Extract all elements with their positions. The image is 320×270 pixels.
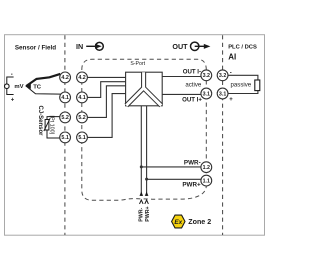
thermocouple TC lower leg (thin) bbox=[26, 86, 61, 94]
Pt100 RTD resistor bbox=[44, 117, 60, 138]
svg-text:3.1: 3.1 bbox=[219, 91, 226, 97]
svg-text:3.2: 3.2 bbox=[219, 73, 226, 79]
isolator box U1 bbox=[126, 72, 163, 106]
svg-text:PLC / DCS: PLC / DCS bbox=[228, 44, 257, 50]
arrowhead PWR+ supply bbox=[145, 192, 149, 196]
junction dot PWR+ bbox=[145, 178, 148, 181]
IN port symbol bbox=[86, 42, 103, 50]
terminal 3.2 PLC bbox=[217, 70, 228, 81]
svg-text:PWR-: PWR- bbox=[138, 207, 144, 221]
svg-text:5.1: 5.1 bbox=[78, 135, 85, 141]
svg-text:+: + bbox=[11, 97, 15, 103]
svg-text:5.2: 5.2 bbox=[61, 115, 68, 121]
svg-text:S-Port: S-Port bbox=[130, 61, 145, 67]
wire terminal 4.1 to isolator bbox=[88, 82, 126, 98]
terminal 3.2 device bbox=[201, 70, 212, 81]
svg-text:PWR+: PWR+ bbox=[145, 206, 151, 221]
svg-text:[Pt 100]: [Pt 100] bbox=[49, 116, 55, 135]
terminal 5.1 plug bbox=[60, 132, 71, 143]
svg-text:4.2: 4.2 bbox=[61, 75, 68, 81]
svg-text:Ex: Ex bbox=[174, 219, 182, 226]
terminal 5.2 device bbox=[77, 112, 88, 123]
terminal 4.2 plug bbox=[60, 72, 71, 83]
S-Port dashed device outline bbox=[82, 59, 207, 200]
Ex hexagon symbol bbox=[172, 215, 185, 228]
terminal 4.1 device bbox=[77, 92, 88, 103]
load resistor bbox=[255, 80, 260, 91]
svg-text:4.1: 4.1 bbox=[78, 95, 85, 101]
svg-text:CJ-Sensor: CJ-Sensor bbox=[37, 106, 43, 137]
svg-text:4.2: 4.2 bbox=[78, 75, 85, 81]
svg-text:-: - bbox=[230, 70, 232, 76]
border frame bbox=[5, 35, 265, 236]
svg-text:3.1: 3.1 bbox=[203, 91, 210, 97]
svg-text:Sensor / Field: Sensor / Field bbox=[15, 44, 56, 51]
terminal 3.1 PLC bbox=[217, 88, 228, 99]
svg-text:3.2: 3.2 bbox=[203, 73, 210, 79]
svg-text:Zone 2: Zone 2 bbox=[188, 218, 211, 226]
wire junction to terminal 1.1 bbox=[147, 178, 202, 180]
svg-text:active: active bbox=[185, 81, 202, 88]
wire terminal 5.2 to isolator bbox=[88, 86, 126, 118]
wire PWR- down from isolator bbox=[140, 106, 142, 196]
terminal 5.2 plug bbox=[60, 112, 71, 123]
svg-text:OUT I-: OUT I- bbox=[183, 69, 201, 76]
svg-text:mV: mV bbox=[14, 84, 23, 90]
svg-text:TC: TC bbox=[33, 84, 42, 90]
plug chevron PWR- bbox=[140, 200, 144, 204]
passive load circuit wires bbox=[228, 75, 258, 93]
wire terminal 5.1 to isolator bbox=[88, 94, 126, 138]
svg-text:PWR-: PWR- bbox=[184, 159, 201, 166]
terminal 1.1 device bbox=[201, 175, 212, 186]
terminal 4.1 plug bbox=[60, 92, 71, 103]
terminal 4.2 device bbox=[77, 72, 88, 83]
svg-text:IN: IN bbox=[76, 42, 83, 51]
wire PWR+ down from isolator bbox=[146, 106, 148, 196]
boundary dashed line OUT/PLC bbox=[222, 35, 224, 235]
terminal 5.1 device bbox=[77, 132, 88, 143]
boundary dashed line Sensor/IN bbox=[64, 35, 66, 235]
svg-text:5.1: 5.1 bbox=[61, 135, 68, 141]
svg-text:PWR+: PWR+ bbox=[182, 182, 201, 189]
wire isolator to OUT I+ terminal 3.1 bbox=[162, 93, 201, 95]
junction dot PWR- bbox=[140, 165, 143, 168]
svg-text:+: + bbox=[229, 97, 233, 103]
arrowhead PWR- supply bbox=[140, 192, 144, 196]
svg-text:1.2: 1.2 bbox=[203, 165, 210, 171]
svg-text:OUT: OUT bbox=[172, 42, 188, 51]
svg-text:-: - bbox=[11, 72, 13, 78]
svg-text:passive: passive bbox=[231, 81, 252, 88]
svg-text:AI: AI bbox=[228, 53, 236, 62]
terminal 3.1 device bbox=[201, 88, 212, 99]
thermocouple junction tip bbox=[25, 83, 31, 89]
svg-text:OUT I+: OUT I+ bbox=[182, 97, 202, 104]
svg-text:5.2: 5.2 bbox=[78, 115, 85, 121]
wire terminal 4.2 to isolator bbox=[88, 76, 126, 78]
wire junction to terminal 1.2 bbox=[141, 166, 201, 168]
plug chevron PWR+ bbox=[145, 200, 149, 204]
svg-text:1.1: 1.1 bbox=[203, 178, 210, 184]
OUT port symbol bbox=[191, 42, 211, 50]
mV source bbox=[5, 77, 14, 95]
terminal 1.2 device bbox=[201, 162, 212, 173]
wire isolator to OUT I- terminal 3.2 bbox=[162, 76, 201, 78]
thermocouple TC upper leg (thick) bbox=[26, 74, 60, 86]
svg-text:4.1: 4.1 bbox=[61, 95, 68, 101]
isolator 3-port separator Y bbox=[126, 72, 161, 105]
